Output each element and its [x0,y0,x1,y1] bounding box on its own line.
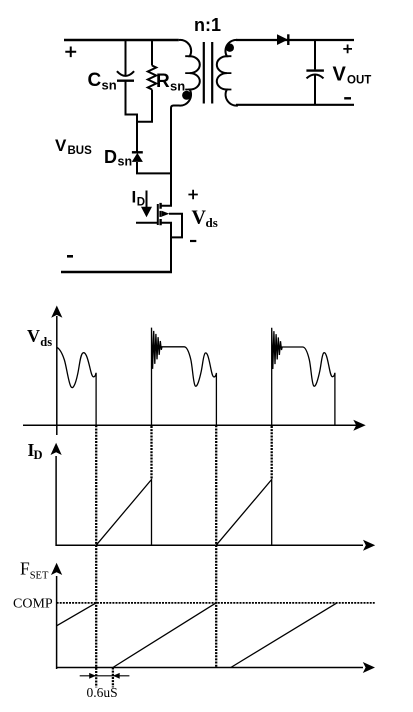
svg-text:D: D [137,197,145,209]
svg-text:sn: sn [118,155,133,169]
svg-text:V: V [333,63,347,85]
svg-text:SET: SET [30,571,49,582]
svg-text:D: D [104,147,117,167]
resistor Rsn [137,40,156,122]
svg-text:sn: sn [102,78,117,93]
ID plot x-axis [56,540,375,551]
svg-text:F: F [20,559,30,579]
waveform: ID ramp 1 [96,480,151,546]
Vds plot x-axis [23,420,366,431]
svg-text:V: V [192,207,207,229]
FSET plot y-axis [51,563,62,669]
svg-text:ds: ds [206,215,218,230]
node: output - terminal [344,97,351,99]
label Vds (circuit) [192,207,218,230]
wire: bottom input rail [61,271,172,273]
label VBUS [55,136,92,157]
waveform: FSET sawtooth 3 [231,603,337,668]
transformer T1 primary dot [182,91,191,100]
waveform: FSET sawtooth 1 [57,603,96,626]
node: input - terminal [67,255,73,258]
svg-text:V: V [55,136,67,155]
svg-text:ds: ds [40,335,52,349]
transformer T1 secondary winding [217,40,238,106]
dashed timing guide at t1b (0.6uS right mark) [112,668,114,688]
diode Dsn [132,152,171,173]
node: output + terminal [343,45,352,54]
label ID with arrow [132,188,153,218]
dashed COMP level line [57,602,375,604]
svg-text:R: R [156,71,170,92]
waveform: FSET sawtooth 2 [113,603,216,668]
wire: drain net [161,108,171,206]
svg-text:0.6uS: 0.6uS [87,685,118,700]
FSET plot x-axis [57,662,375,673]
Vds plot y-axis [51,306,62,436]
svg-text:C: C [88,70,102,91]
label ID (plot) [28,440,43,462]
node: Vds + [188,190,197,200]
svg-text:sn: sn [170,79,185,94]
capacitor Cout [306,40,324,105]
node: Vds - [190,240,196,242]
diode D1 (output rectifier) [277,34,288,45]
transformer T1 primary winding [171,40,200,112]
svg-text:n:1: n:1 [194,15,221,35]
wire: secondary top rail [236,39,354,41]
wire: snubber stem [136,121,138,152]
label FSET [20,559,49,582]
annotation: 0.6uS dimension arrows [80,673,130,679]
waveform: Vds pulse 3 [272,328,335,426]
label Csn [88,70,117,93]
label Vds (plot) [27,326,52,349]
wire: secondary bottom rail [236,104,354,106]
ID plot y-axis [51,443,62,546]
transformer T1 core [204,42,212,104]
dashed timing guide at t1 [95,425,97,687]
transformer T1 secondary dot [226,44,234,52]
dashed timing guide at t2 [150,426,152,480]
svg-text:COMP: COMP [13,596,53,611]
svg-text:V: V [27,326,40,346]
capacitor Csn [117,40,137,122]
label VOUT [333,63,372,86]
svg-text:BUS: BUS [68,145,93,157]
svg-text:D: D [34,448,43,462]
label Dsn [104,147,132,169]
label Rsn [156,71,185,94]
waveform: Vds pulse 1 [57,347,96,425]
wire: top input rail [64,39,179,41]
dashed timing guide at t3 [215,425,217,667]
node: input + terminal [65,47,76,58]
dashed timing guide at t4 [271,426,273,480]
transistor Q1 (MOSFET) [136,203,182,272]
waveform: ID ramp 2 [216,480,272,546]
svg-text:I: I [132,188,137,207]
waveform: Vds pulse 2 [152,328,217,426]
svg-text:OUT: OUT [347,74,371,86]
